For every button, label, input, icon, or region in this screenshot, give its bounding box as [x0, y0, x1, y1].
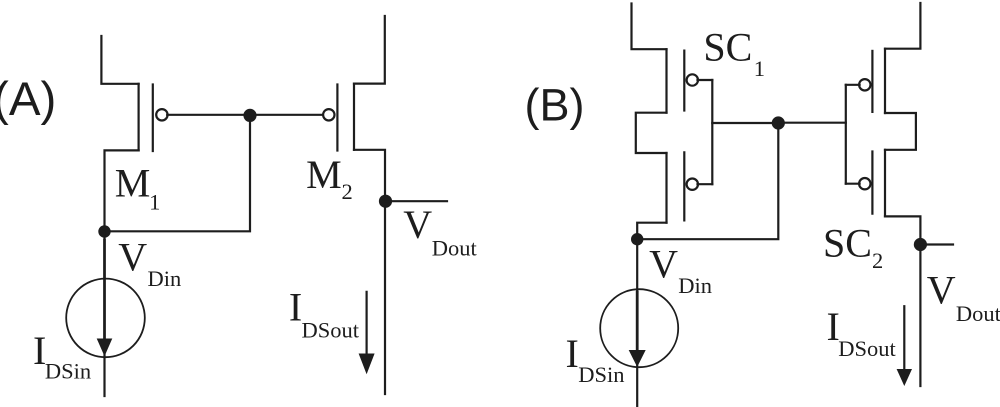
wire M1 drain [105, 150, 139, 231]
SC2 upper channel bar [884, 49, 886, 113]
wire SC2 upper bubble lead [846, 84, 860, 86]
node gate junction A [243, 109, 256, 122]
wire SC1 mid jog [636, 113, 667, 153]
wire SC1 gate output [712, 122, 778, 124]
transistor M1 [101, 36, 167, 232]
svg-text:I: I [289, 285, 302, 330]
svg-text:Din: Din [148, 266, 182, 291]
wire SC1 upper bubble lead [698, 79, 713, 81]
SC2 upper gate bar [871, 51, 873, 112]
transistor M2 [323, 16, 385, 394]
SC1 upper gate bar [683, 51, 685, 111]
wire input branch down (B) [636, 239, 638, 406]
current arrow IDSout (A) [366, 292, 368, 356]
SC1 lower gate bar [683, 152, 685, 220]
current source IDSin circle (B) [600, 289, 678, 367]
current source IDSin arrow [103, 240, 106, 340]
wire SC1 gate tie bar [711, 80, 713, 184]
wire gate junction to SC2 [778, 122, 846, 124]
SC1 lower gate bubble [687, 179, 698, 190]
svg-text:V: V [403, 202, 432, 247]
svg-text:I: I [566, 331, 579, 376]
svg-text:DSin: DSin [578, 362, 624, 387]
svg-text:2: 2 [342, 179, 353, 204]
wire input branch down [103, 232, 105, 397]
svg-text:M: M [115, 161, 151, 206]
svg-text:M: M [306, 152, 342, 197]
wire VDout tap (B) [920, 243, 953, 245]
node VDout [379, 195, 392, 208]
wire VDout tap [386, 200, 448, 202]
svg-text:SC: SC [823, 221, 872, 266]
M2 channel bar [353, 84, 355, 150]
wire SC2 gate tie bar [845, 85, 847, 184]
wire SC2 lower bubble lead [846, 183, 860, 185]
svg-text:DSout: DSout [838, 336, 896, 361]
current source IDSin arrow (B) [636, 292, 639, 352]
node VDout (B) [914, 238, 927, 251]
wire SC2 drain [885, 216, 920, 386]
svg-text:2: 2 [872, 248, 883, 273]
svg-text:SC: SC [703, 24, 752, 69]
composite transistor SC2 [846, 3, 921, 386]
wire diode connection (gate to drain of SC1) [637, 123, 778, 239]
svg-text:V: V [927, 268, 956, 313]
wire SC1 drain [637, 223, 666, 239]
wire SC1 source stub [632, 4, 667, 50]
wire M1 source stub [101, 36, 138, 84]
wire SC1 lower bubble lead [698, 183, 713, 185]
SC2 lower gate bar [871, 152, 873, 214]
SC2 lower channel bar [884, 150, 886, 217]
wire diode connection (gate to drain of M1) [105, 115, 251, 231]
SC1 upper channel bar [665, 49, 667, 112]
svg-text:Dout: Dout [956, 301, 1000, 326]
svg-text:DSin: DSin [45, 358, 91, 383]
M1 gate bar [152, 85, 154, 152]
M1 gate bubble [156, 109, 167, 120]
svg-text:1: 1 [754, 56, 765, 81]
wire M2 drain [354, 150, 385, 394]
svg-text:V: V [118, 235, 147, 280]
svg-text:(B): (B) [525, 80, 585, 131]
svg-text:Dout: Dout [432, 235, 478, 260]
SC1 lower channel bar [665, 153, 667, 223]
wire SC2 source stub [885, 3, 920, 49]
M2 gate bubble [323, 109, 334, 120]
M1 channel bar [138, 84, 140, 151]
svg-text:V: V [649, 242, 678, 287]
M2 gate bar [336, 85, 338, 151]
current source IDSin circle [66, 279, 145, 358]
svg-text:1: 1 [149, 189, 160, 214]
node VDin (B) [631, 233, 643, 245]
SC2 lower gate bubble [859, 178, 870, 189]
SC2 upper gate bubble [859, 79, 870, 90]
svg-text:DSout: DSout [302, 318, 360, 343]
wire gate of M1 to gate of M2 [167, 114, 324, 116]
wire M2 source stub [354, 16, 385, 84]
composite transistor SC1 [632, 4, 779, 240]
svg-text:(A): (A) [0, 73, 56, 126]
node gate junction B [772, 116, 785, 129]
node VDin [98, 225, 110, 237]
current arrow IDSout (B) [903, 306, 905, 368]
wire SC2 mid jog [885, 113, 916, 150]
svg-text:Din: Din [678, 273, 712, 298]
SC1 upper gate bubble [687, 74, 698, 85]
